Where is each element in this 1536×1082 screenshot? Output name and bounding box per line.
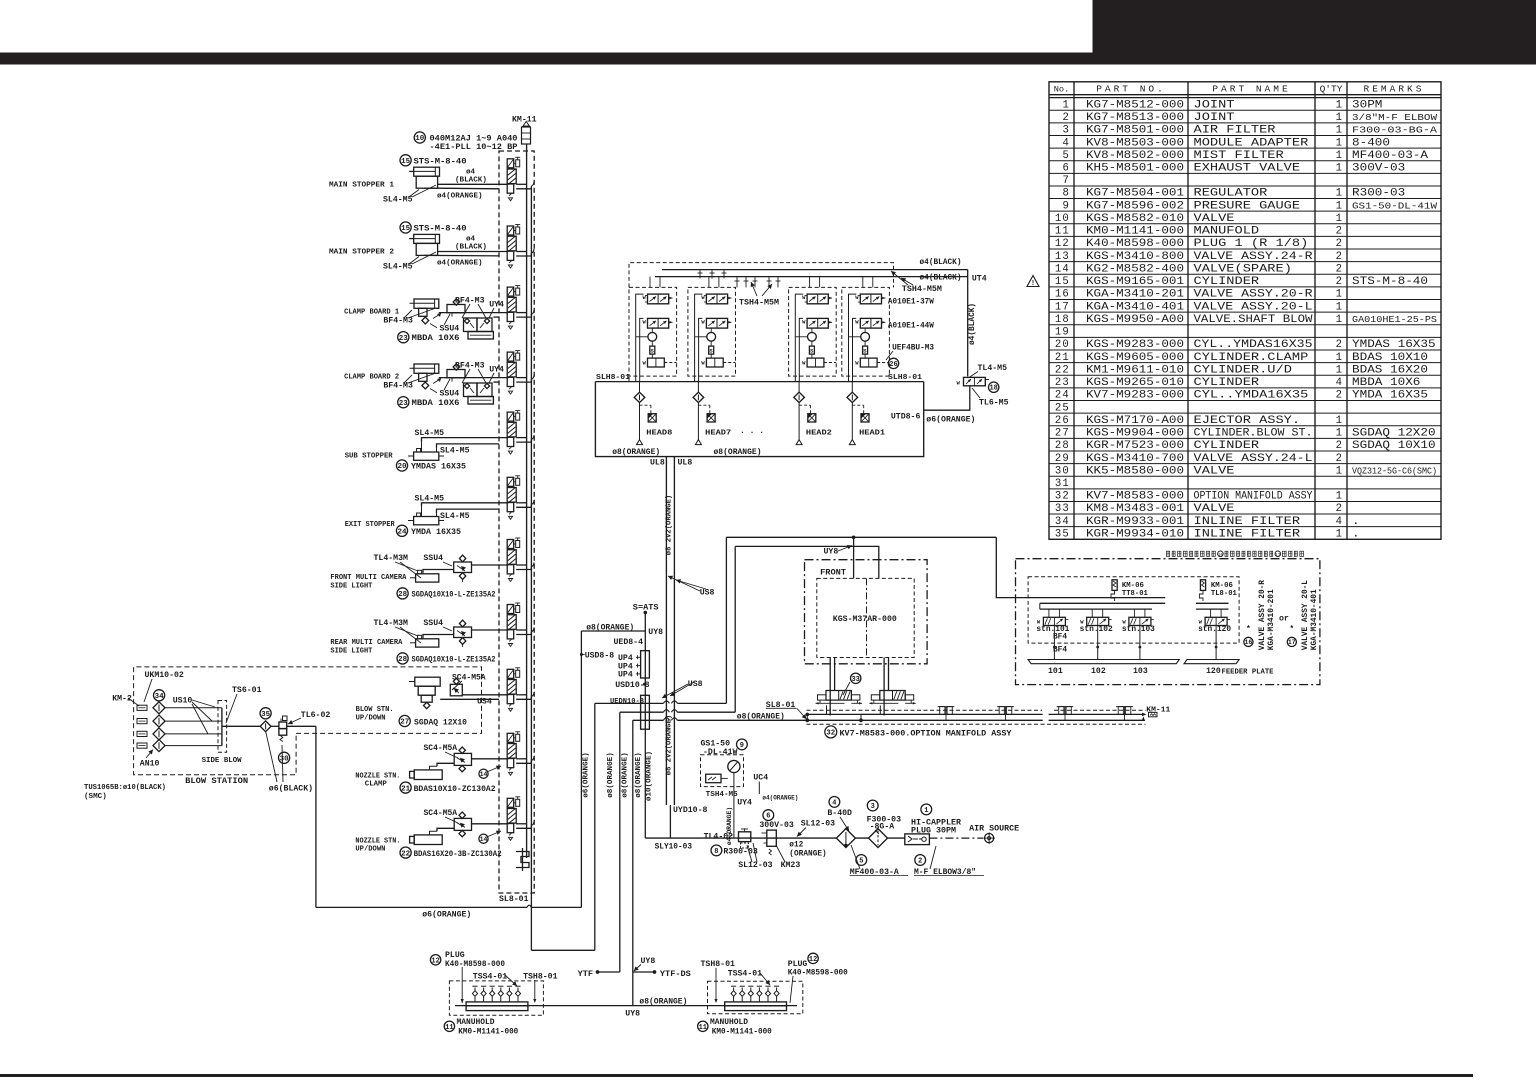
valve st9 (BLOW STN U/D) [507, 668, 534, 712]
svg-text:120: 120 [1206, 667, 1221, 676]
label SC4-M5A st11 [424, 809, 459, 823]
svg-text:UC4: UC4 [753, 773, 768, 782]
svg-text:(SMC): (SMC) [84, 793, 107, 801]
svg-text:27: 27 [400, 719, 409, 727]
svg-text:ø6(BLACK): ø6(BLACK) [269, 784, 313, 794]
valve assy FRONT CAMERA [410, 555, 507, 582]
svg-text:YTF: YTF [578, 969, 593, 979]
label BF4-M3 left st3 [383, 308, 436, 326]
svg-text:14: 14 [480, 836, 488, 843]
svg-text:24: 24 [1055, 390, 1070, 402]
wire UY8 to front a [726, 536, 996, 703]
svg-text:1: 1 [1336, 163, 1342, 175]
svg-text:VALVE ASSY.20-R: VALVE ASSY.20-R [1194, 289, 1314, 301]
svg-text:HEAD8: HEAD8 [646, 430, 672, 438]
svg-text:1: 1 [1336, 491, 1342, 503]
label 8 R300-03 [711, 845, 758, 856]
label 10 040M12AJ [414, 132, 517, 152]
label 16 circ feeder [1244, 625, 1253, 647]
label phi4 BLACK vertical [969, 303, 977, 345]
label phi8 2V2 ORANGE lower [666, 715, 674, 775]
svg-text:3/8"M-F ELBOW: 3/8"M-F ELBOW [1352, 112, 1438, 123]
label SLY10-03 [655, 844, 693, 852]
svg-text:VALVE ASSY.24-L: VALVE ASSY.24-L [1194, 453, 1313, 465]
svg-text:ø4(BLACK): ø4(BLACK) [920, 275, 962, 283]
svg-text:ø8(ORANGE): ø8(ORANGE) [622, 752, 630, 798]
svg-text:CLAMP BOARD 2: CLAMP BOARD 2 [344, 374, 399, 382]
head block outer dashed [629, 263, 894, 382]
svg-text:KM-11: KM-11 [1146, 706, 1170, 714]
label phi8 ORANGE uy8 [586, 624, 634, 633]
wire to feeder plate box [996, 537, 1023, 597]
valve SC4-M5A st9 [450, 678, 462, 696]
svg-text:TSH4-M5M: TSH4-M5M [739, 300, 779, 308]
label phi4 ORANGE vert gauge [726, 807, 733, 845]
label SL4-M5 st2 [383, 252, 436, 272]
wire st9 upper [462, 694, 507, 696]
svg-text:AN10: AN10 [140, 760, 160, 769]
svg-text:25: 25 [1055, 402, 1070, 414]
label SL12-03 up [797, 819, 835, 836]
svg-text:CYL..YMDA16X35: CYL..YMDA16X35 [1194, 390, 1309, 402]
svg-text:KM0-M1141-000: KM0-M1141-000 [712, 1027, 772, 1036]
label SSU4 st8 [423, 619, 452, 631]
wire uy8 corner [581, 630, 645, 632]
label 34 circ [154, 690, 165, 701]
label TUS1065B [84, 784, 166, 801]
svg-text:KGS-M9265-010: KGS-M9265-010 [1086, 377, 1184, 389]
svg-text:KG7-M8504-001: KG7-M8504-001 [1086, 188, 1184, 200]
svg-text:ø8(ORANGE): ø8(ORANGE) [714, 448, 762, 457]
svg-text:R300-03: R300-03 [1352, 188, 1405, 200]
svg-text:2: 2 [1062, 112, 1070, 124]
label 15 STS-M-8-40 st2 [400, 222, 467, 234]
svg-text:JOINT: JOINT [1194, 99, 1235, 111]
label 27 SGDAQ 12X10 [399, 715, 467, 727]
svg-text:KGR-M9933-001: KGR-M9933-001 [1086, 516, 1184, 528]
svg-text:2: 2 [1336, 339, 1342, 351]
wire line2 y712 [620, 710, 735, 972]
labels 101 102 103 120 FEEDER PLATE [1048, 667, 1274, 677]
svg-text:TL6-M5: TL6-M5 [979, 399, 1009, 408]
label 12 PLUG right [788, 953, 848, 1003]
svg-text:AIR FILTER: AIR FILTER [1194, 125, 1277, 137]
svg-text:NOZZLE STN.: NOZZLE STN. [355, 837, 400, 845]
svg-text:KM0-M1141-000: KM0-M1141-000 [458, 1027, 518, 1036]
cylinder MAIN STOPPER 1 [409, 167, 439, 188]
blow station dashed box [134, 667, 482, 775]
svg-text:SL4-M5: SL4-M5 [415, 494, 445, 503]
svg-text:6: 6 [1062, 163, 1070, 175]
valve 33 right [869, 691, 916, 705]
left manifold dashed enclosure [499, 151, 534, 893]
header block right [1093, 0, 1536, 65]
wire option upper line [806, 713, 1147, 722]
wire st2 black [438, 251, 508, 253]
label YTF [578, 969, 620, 979]
svg-text:300V-03: 300V-03 [759, 821, 793, 830]
wire bottom phi8 orange [455, 1005, 797, 1007]
svg-text:VALVE ASSY.20-L: VALVE ASSY.20-L [1194, 301, 1313, 313]
wire st1 black [438, 183, 508, 185]
svg-text:8-400: 8-400 [1352, 137, 1390, 149]
svg-text:7: 7 [1062, 175, 1070, 187]
svg-text:MAIN STOPPER 2: MAIN STOPPER 2 [329, 249, 394, 257]
svg-text:TL4-02: TL4-02 [704, 833, 734, 842]
label phi8 ORANGE head left [612, 448, 660, 457]
label 11 MANUHOLD left [444, 1018, 518, 1037]
svg-text:TL6-02: TL6-02 [301, 711, 331, 720]
svg-text:USD8-8: USD8-8 [585, 651, 615, 660]
svg-text:23: 23 [1055, 377, 1070, 389]
label US8 lower [662, 680, 703, 698]
svg-text:KM-06: KM-06 [1211, 582, 1233, 590]
label stn.102 [1080, 626, 1113, 634]
svg-text:KGS-M8582-010: KGS-M8582-010 [1086, 213, 1184, 225]
valve st8 (REAR CAMERA LIGHT) [507, 603, 534, 647]
ejector cell HEAD2 [789, 287, 837, 444]
svg-text:-8G-A: -8G-A [870, 823, 895, 832]
header bar left [0, 53, 1536, 65]
label NOZZLE STN UP/DOWN [355, 837, 400, 853]
label phi4 ORANGE st1 [437, 193, 483, 201]
svg-text:9: 9 [1062, 200, 1070, 212]
svg-text:26: 26 [1055, 415, 1070, 427]
label HEAD2 [806, 430, 832, 438]
svg-text:MBDA 10X6: MBDA 10X6 [412, 398, 460, 408]
valve st5 (SUB STOPPER) [507, 411, 534, 455]
svg-text:ø8(ORANGE): ø8(ORANGE) [737, 713, 785, 722]
fitting KM-06 TT8-01 [1111, 580, 1148, 601]
valve TL6-02 [279, 716, 287, 742]
label phi6 ORANGE utd [926, 415, 975, 425]
labels UP4 ports [618, 654, 641, 680]
wire st4 lower [493, 381, 499, 383]
svg-text:30: 30 [1055, 465, 1070, 477]
svg-text:23: 23 [399, 335, 409, 343]
wire air main line [645, 837, 905, 839]
label BF4-M3 top st4 [455, 362, 504, 384]
svg-text:KV8-M8502-000: KV8-M8502-000 [1086, 150, 1184, 162]
svg-text:stn.103: stn.103 [1122, 626, 1155, 634]
svg-text:9: 9 [740, 742, 744, 750]
svg-text:SIDE LIGHT: SIDE LIGHT [330, 582, 373, 590]
label phi4 BLACK rail 1 [920, 259, 962, 267]
svg-text:1: 1 [1336, 289, 1342, 301]
label US10 [173, 696, 215, 734]
parts table rows text [1055, 99, 1438, 540]
label UL8 b [678, 459, 693, 468]
cylinder BLOW STN UD [409, 677, 440, 709]
wire line1 UEDN y703 [595, 701, 727, 704]
svg-text:UY4: UY4 [737, 799, 752, 808]
svg-text:16: 16 [1218, 552, 1224, 558]
label 4 B-40D [827, 797, 852, 832]
svg-text:BLOW STATION: BLOW STATION [185, 776, 248, 786]
svg-text:UP4: UP4 [618, 671, 633, 680]
svg-text:VALVE ASSY 20-L: VALVE ASSY 20-L [1302, 580, 1310, 651]
option manifold dashed box [807, 710, 1146, 724]
label 33 circ [843, 673, 861, 695]
svg-text:MAIN STOPPER 1: MAIN STOPPER 1 [329, 182, 394, 190]
valve st7 (FRONT CAMERA LIGHT) [507, 538, 534, 582]
svg-text:SGDAQ10X10-L-ZE135A2: SGDAQ10X10-L-ZE135A2 [412, 655, 496, 664]
blow station filters KM-2/US10 [137, 702, 260, 752]
wire option lower line end arrow [1142, 717, 1146, 722]
svg-text:5: 5 [859, 858, 863, 866]
svg-text:ø6(ORANGE): ø6(ORANGE) [422, 910, 471, 920]
svg-text:14: 14 [1055, 263, 1070, 275]
svg-text:17: 17 [1055, 301, 1070, 313]
label UT4 [972, 275, 987, 284]
label AN10 [140, 750, 160, 769]
label BLOW STATION [185, 776, 248, 786]
ejector cell HEAD8 [629, 287, 677, 444]
svg-text:MF400-03-A: MF400-03-A [1352, 150, 1429, 162]
svg-text:1: 1 [1336, 125, 1342, 137]
svg-text:SIDE BLOW: SIDE BLOW [202, 757, 242, 765]
svg-text:KG7-M8513-000: KG7-M8513-000 [1086, 112, 1184, 124]
svg-text:SLY10-03: SLY10-03 [655, 844, 693, 852]
label phi8 ORANGE head right [714, 448, 762, 457]
svg-text:TT8-01: TT8-01 [1122, 590, 1148, 598]
svg-text:KM-11: KM-11 [512, 116, 537, 125]
svg-text:KG7-M8501-000: KG7-M8501-000 [1086, 125, 1184, 137]
wire UY8 to front b [735, 546, 879, 712]
label 22 BDAS16X20 [400, 847, 502, 859]
label phi8 ORANGE bottom [639, 997, 687, 1006]
label USD10-8 [615, 681, 649, 690]
svg-text:BDAS16X20-3B-ZC130A2: BDAS16X20-3B-ZC130A2 [414, 850, 502, 859]
feeder valve stn.103 [1122, 609, 1154, 628]
svg-text:2: 2 [1336, 440, 1342, 452]
svg-text:22: 22 [1055, 364, 1070, 376]
valve TL4-M5/TL6-M5 18 [957, 377, 990, 386]
manifold UED8-4 [614, 638, 650, 678]
svg-text:33: 33 [851, 676, 859, 684]
label TL4-M3M st8 [374, 619, 422, 643]
svg-text:UED8-4: UED8-4 [614, 638, 644, 647]
svg-text:35: 35 [261, 711, 271, 719]
svg-text:AIR SOURCE: AIR SOURCE [969, 824, 1019, 833]
label SSU4 st4 [430, 379, 459, 399]
label phi8 ORANGE vert b [622, 752, 630, 798]
svg-text:GA010HE1-25-PS: GA010HE1-25-PS [1352, 314, 1438, 325]
label UY4 gauge [737, 799, 752, 808]
svg-text:YMDA 16X35: YMDA 16X35 [1352, 390, 1428, 402]
svg-text:2: 2 [1336, 453, 1342, 465]
label TSS4-01 right [728, 969, 770, 985]
svg-text:SSU4: SSU4 [440, 325, 460, 334]
label TSH8-01 right [701, 960, 735, 1003]
svg-text:KGS-M9950-A00: KGS-M9950-A00 [1086, 314, 1184, 326]
svg-text:KV7-M9283-000: KV7-M9283-000 [1086, 390, 1184, 402]
valve st11 (NOZZLE STN U/D) [507, 797, 534, 841]
svg-text:VALVE ASSY 20-R: VALVE ASSY 20-R [1259, 580, 1267, 651]
label AO10E1-44W [888, 322, 934, 331]
svg-text:STS-M-8-40: STS-M-8-40 [414, 224, 467, 234]
label 9 circ [737, 739, 748, 750]
svg-text:29: 29 [1055, 453, 1070, 465]
feeder plate bars [1028, 660, 1239, 664]
svg-text:32: 32 [1055, 491, 1070, 503]
manifold end cap [516, 848, 529, 871]
svg-text:stn.102: stn.102 [1080, 626, 1113, 634]
svg-text:SGDAQ10X10-L-ZE135A2: SGDAQ10X10-L-ZE135A2 [412, 590, 496, 599]
svg-text:VALVE ASSY.24-R: VALVE ASSY.24-R [1194, 251, 1314, 263]
label VALVE ASSY 20-R vertical [1259, 580, 1276, 651]
svg-text:ø4(BLACK): ø4(BLACK) [969, 303, 977, 345]
svg-text:KM-06: KM-06 [1122, 582, 1144, 590]
svg-text:1: 1 [1336, 314, 1342, 326]
svg-text:A010E1-44W: A010E1-44W [888, 322, 934, 331]
svg-text:1: 1 [1336, 528, 1342, 540]
svg-text:10: 10 [1055, 213, 1070, 225]
label SSU4 st7 [423, 554, 452, 566]
label phi6 BLACK [266, 731, 313, 794]
svg-text:32: 32 [826, 730, 836, 738]
svg-text:15: 15 [401, 158, 411, 166]
svg-text:KV7-M8583-000.OPTION MANIFOLD: KV7-M8583-000.OPTION MANIFOLD ASSY [840, 728, 1013, 738]
T coupler 2 [997, 707, 1014, 721]
svg-text:PART NAME: PART NAME [1212, 83, 1290, 94]
svg-text:REGULATOR: REGULATOR [1194, 188, 1269, 200]
label REAR MULTI CAMERA SIDE LIGHT [330, 639, 403, 655]
svg-text:YMDA 16X35: YMDA 16X35 [411, 527, 461, 537]
jp note [1166, 551, 1303, 558]
svg-text:INLINE FILTER: INLINE FILTER [1194, 528, 1301, 540]
svg-text:UY4: UY4 [489, 366, 504, 375]
svg-text:PLUG 1 (R 1/8): PLUG 1 (R 1/8) [1194, 238, 1309, 250]
svg-text:1: 1 [1336, 428, 1342, 440]
label phi4 ORANGE small [762, 795, 798, 802]
feeder valve stn.102 [1080, 609, 1112, 628]
wire option stub left valve [826, 705, 828, 714]
svg-text:MANUFOLD: MANUFOLD [1194, 226, 1260, 238]
label SLH8-01 right [888, 374, 922, 382]
svg-text:2: 2 [1336, 226, 1342, 238]
svg-text:KGS-M3410-800: KGS-M3410-800 [1086, 251, 1184, 263]
svg-text:SL12-03: SL12-03 [801, 819, 835, 828]
cylinder assy CLAMP BOARD 1 [410, 299, 494, 339]
svg-text:NOZZLE STN.: NOZZLE STN. [355, 772, 400, 780]
svg-text:103: 103 [1133, 667, 1148, 676]
svg-text:UEF4BU-M3: UEF4BU-M3 [892, 344, 934, 353]
label SL4-M5 st6 a [415, 494, 445, 503]
svg-text:FRONT MULTI CAMERA: FRONT MULTI CAMERA [330, 574, 407, 582]
svg-text:REMARKS: REMARKS [1364, 83, 1425, 94]
svg-text:6: 6 [766, 813, 770, 821]
svg-text:SL4-M5: SL4-M5 [383, 196, 413, 205]
svg-text:1: 1 [1336, 137, 1342, 149]
label 3 F300-03-8G-A [867, 800, 901, 834]
module adapter 4 B-40D [836, 829, 855, 848]
label UY8 front [824, 545, 853, 557]
label SUB STOPPER [345, 453, 393, 461]
label HEAD7 [705, 430, 731, 438]
wire option stub right valve [860, 705, 881, 721]
label SL4-M5 st5 a [415, 429, 445, 438]
svg-text:22: 22 [401, 850, 411, 858]
wire UT4 vertical [967, 270, 969, 377]
hi-cappler plug [905, 834, 930, 845]
svg-text:TS6-01: TS6-01 [232, 686, 262, 695]
svg-text:KM0-M1141-000: KM0-M1141-000 [1086, 226, 1184, 238]
wire UYD10-8 down [669, 805, 671, 838]
svg-text:MODULE ADAPTER: MODULE ADAPTER [1194, 137, 1310, 149]
manifold MANUHOLD left [449, 981, 543, 1015]
svg-text:CYLINDER: CYLINDER [1194, 276, 1260, 288]
svg-text:SSU4: SSU4 [423, 619, 443, 628]
svg-text:34: 34 [1055, 516, 1070, 528]
label 28 SGDAQ st7 [397, 588, 496, 600]
valve assy NOZZLE UD [410, 812, 508, 845]
wire TL6-M5 down [924, 386, 970, 410]
svg-text:FRONT: FRONT [820, 568, 846, 578]
svg-text:CLAMP: CLAMP [365, 781, 388, 789]
svg-text:SUB STOPPER: SUB STOPPER [345, 453, 393, 461]
svg-text:10: 10 [415, 135, 425, 143]
svg-text:SC4-M5A: SC4-M5A [452, 673, 486, 682]
label phi4 BLACK rail 2 [920, 275, 962, 283]
wire UL8 pair [666, 457, 674, 805]
wire air source dashdot [929, 832, 995, 844]
label BF4-M3 top st3 [455, 297, 504, 319]
svg-text:17: 17 [1288, 639, 1296, 646]
svg-text:BDAS 10X10: BDAS 10X10 [1352, 352, 1428, 364]
svg-text:KGS-M37AR-000: KGS-M37AR-000 [833, 615, 897, 624]
gauge assy GS1-50 9 [701, 755, 744, 838]
svg-text:UEDN10-8: UEDN10-8 [610, 698, 644, 706]
svg-text:-4E1-PLL 10~12 BP: -4E1-PLL 10~12 BP [430, 142, 518, 152]
svg-text:KGS-M3410-700: KGS-M3410-700 [1086, 453, 1184, 465]
svg-text:TSH8-01: TSH8-01 [523, 972, 557, 981]
svg-text:OPTION MANIFOLD ASSY: OPTION MANIFOLD ASSY [1194, 491, 1314, 503]
svg-text:24: 24 [397, 529, 407, 537]
label SC4-M5A st10 [424, 744, 459, 758]
svg-text:1: 1 [1336, 99, 1342, 111]
svg-text:STS-M-8-40: STS-M-8-40 [1352, 276, 1428, 288]
label UEF4BU-M3 [886, 344, 934, 361]
manifold supply bus [527, 145, 532, 894]
feeder bus lines [1023, 598, 1229, 610]
label TL4-02 [704, 833, 734, 842]
T coupler 4 [1116, 707, 1133, 721]
label 28 SGDAQ st8 [397, 653, 496, 665]
svg-text:HEAD7: HEAD7 [705, 430, 731, 438]
svg-text:HEAD2: HEAD2 [806, 430, 832, 438]
pipes front to valves [830, 658, 888, 716]
svg-text:1: 1 [1336, 200, 1342, 212]
label KGS-M37AR-000 [833, 615, 897, 624]
svg-text:101: 101 [1048, 667, 1063, 676]
svg-text:17: 17 [1275, 552, 1281, 558]
wire st2 orange [424, 254, 499, 257]
label 20 YMDAS 16X35 [396, 460, 466, 472]
label TL6-M5 [972, 388, 1009, 408]
feeder dash-dot box [1016, 559, 1320, 685]
label FRONT [820, 568, 846, 578]
label SL4-M5 st5 b [440, 447, 470, 456]
svg-text:1: 1 [924, 807, 928, 815]
ejector cell HEAD7 [688, 287, 736, 444]
label SLH8-01 left [596, 374, 630, 382]
label VALVE ASSY 20-L vertical [1302, 580, 1319, 651]
label SL4-M5 st6 b [440, 512, 470, 521]
svg-text:. . .: . . . [740, 427, 764, 436]
svg-text:SL8-01: SL8-01 [499, 895, 529, 904]
svg-text:8: 8 [1062, 188, 1070, 200]
